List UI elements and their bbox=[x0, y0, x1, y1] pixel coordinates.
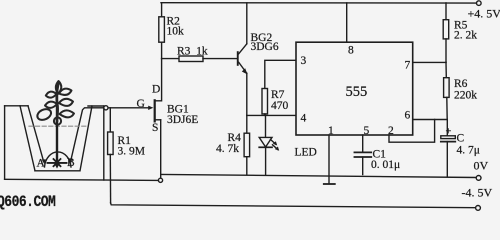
svg-text:3DG6: 3DG6 bbox=[251, 41, 279, 53]
svg-text:555: 555 bbox=[346, 84, 368, 100]
svg-text:Q606.COM: Q606.COM bbox=[0, 194, 55, 211]
plant flower leaves bbox=[36, 81, 74, 125]
svg-text:R3 1k: R3 1k bbox=[177, 46, 208, 58]
resistor R3 bbox=[162, 46, 237, 62]
wire 0V rail bbox=[161, 174, 476, 177]
wire pin8 bbox=[346, 3, 348, 42]
svg-text:220k: 220k bbox=[454, 90, 477, 102]
svg-text:LED: LED bbox=[295, 147, 317, 159]
svg-text:0V: 0V bbox=[474, 159, 489, 173]
capacitor C electrolytic bbox=[441, 120, 480, 177]
wire top +4.5V rail bbox=[161, 2, 476, 4]
svg-text:D: D bbox=[152, 84, 160, 96]
resistor R1 bbox=[108, 108, 145, 203]
LED D1 bbox=[259, 115, 317, 174]
svg-text:0. 01μ: 0. 01μ bbox=[371, 159, 400, 171]
svg-text:+: + bbox=[446, 127, 452, 138]
wire electrode A bbox=[28, 106, 46, 164]
svg-text:4. 7μ: 4. 7μ bbox=[457, 145, 480, 157]
node source junction circle bbox=[158, 178, 162, 182]
wire drain to R2/R3 junction bbox=[156, 59, 162, 101]
svg-text:-4. 5V: -4. 5V bbox=[462, 186, 493, 200]
resistor R4 bbox=[216, 115, 250, 174]
wire pin7 bbox=[413, 61, 446, 63]
svg-text:R6: R6 bbox=[454, 78, 468, 90]
svg-text:4. 7k: 4. 7k bbox=[216, 143, 239, 155]
wire pin3 to R7 bbox=[265, 60, 296, 88]
svg-text:3: 3 bbox=[301, 55, 307, 67]
svg-text:+4. 5V: +4. 5V bbox=[468, 7, 500, 21]
soil level dashed line bbox=[29, 125, 88, 127]
svg-text:470: 470 bbox=[271, 100, 289, 112]
svg-text:4: 4 bbox=[301, 113, 307, 125]
wire electrode B bbox=[69, 108, 104, 164]
terminal 0V bbox=[476, 176, 481, 181]
terminal -4.5V bbox=[476, 206, 481, 211]
node gate junction circle bbox=[104, 106, 108, 110]
svg-text:C: C bbox=[457, 133, 465, 145]
resistor R6 bbox=[444, 62, 478, 119]
terminal +4.5V bbox=[477, 1, 482, 6]
capacitor C1 bbox=[354, 135, 400, 175]
svg-text:2. 2k: 2. 2k bbox=[454, 30, 477, 42]
svg-text:7: 7 bbox=[405, 60, 411, 72]
plant stem and roots bbox=[48, 85, 67, 169]
svg-text:10k: 10k bbox=[167, 26, 185, 38]
svg-text:3. 9M: 3. 9M bbox=[118, 146, 145, 158]
wire pin4 bbox=[247, 114, 296, 116]
root mound arc bbox=[45, 152, 72, 167]
svg-text:A: A bbox=[37, 158, 46, 170]
svg-text:8: 8 bbox=[348, 45, 354, 57]
resistor R2 bbox=[159, 3, 184, 59]
transistor Q1 BG1 3DJ6E (JFET) bbox=[108, 84, 198, 179]
svg-text:3DJ6E: 3DJ6E bbox=[167, 114, 198, 126]
resistor R5 bbox=[443, 3, 477, 63]
wire -4.5V rail bbox=[111, 203, 476, 208]
resistor R7 bbox=[262, 89, 289, 116]
wire pin6 bbox=[413, 119, 448, 121]
IC U1 555 timer bbox=[296, 42, 413, 137]
transistor Q2 BG2 3DG6 bbox=[237, 3, 279, 116]
ground pin1 bbox=[324, 135, 335, 184]
flower pot bbox=[5, 106, 104, 180]
svg-text:6: 6 bbox=[405, 110, 411, 122]
svg-text:B: B bbox=[67, 157, 75, 169]
svg-text:S: S bbox=[152, 122, 158, 134]
wire bottom left rail bbox=[5, 179, 159, 180]
wire pin2 bbox=[389, 120, 435, 143]
svg-text:G: G bbox=[137, 98, 145, 110]
svg-text:5: 5 bbox=[364, 125, 370, 137]
